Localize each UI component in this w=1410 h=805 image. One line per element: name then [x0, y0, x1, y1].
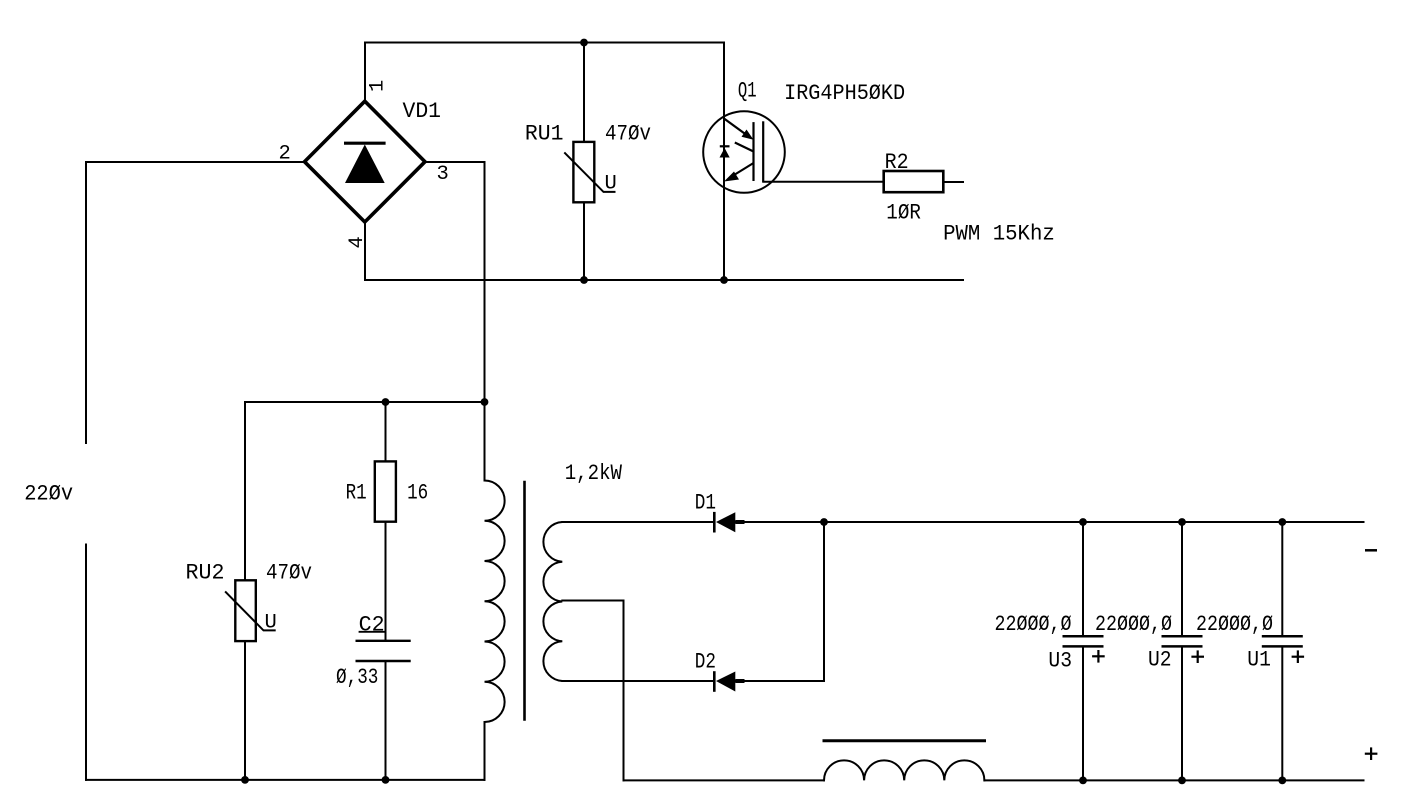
diode D2 cathode bar — [713, 671, 716, 692]
node neg rail / U3 — [1079, 518, 1087, 526]
wire bottom-right rail left part — [624, 779, 825, 781]
wire capacitor U1 bottom lead — [1281, 648, 1283, 781]
svg-text:U: U — [605, 173, 617, 196]
wire RU1 bottom lead — [583, 202, 585, 280]
wire capacitor U1 top lead — [1281, 522, 1283, 635]
capacitor C2 plates — [356, 641, 411, 661]
diode D1 anode stub — [735, 520, 744, 524]
capacitor U1 plates — [1262, 636, 1303, 646]
wire emitter rail — [365, 279, 963, 281]
output terminal plus — [1365, 747, 1378, 760]
svg-text:C2: C2 — [359, 613, 385, 638]
svg-text:R2: R2 — [885, 150, 909, 175]
node mid wire / R1 — [382, 398, 390, 406]
node neg rail / U2 — [1178, 518, 1186, 526]
wire top rail — [365, 42, 724, 44]
transformer T1 core — [523, 482, 526, 720]
node plus rail / U3 — [1079, 777, 1087, 785]
svg-text:22ØØØ,Ø: 22ØØØ,Ø — [1196, 612, 1273, 637]
svg-text:Q1: Q1 — [738, 79, 757, 104]
svg-text:D1: D1 — [695, 490, 716, 515]
wire capacitor U3 bottom lead — [1082, 648, 1084, 781]
wire pin3 drop to primary — [484, 162, 486, 481]
node bottom-left rail / RU2 — [241, 776, 249, 784]
node top rail / RU1 — [580, 39, 588, 47]
wire left drop upper — [85, 162, 87, 443]
diode D1 cathode bar — [713, 512, 716, 533]
svg-text:U2: U2 — [1148, 648, 1172, 673]
Q1 internal diode bar — [720, 145, 730, 147]
wire left drop lower (below 220v source gap) — [85, 545, 87, 780]
polarity + (U2) — [1191, 650, 1204, 663]
node emitter rail / RU1 — [580, 276, 588, 284]
varistor RU2 — [225, 580, 276, 641]
transformer T1 primary winding — [485, 481, 505, 723]
wire capacitor U3 top lead — [1082, 522, 1084, 635]
node plus rail / U2 — [1178, 777, 1186, 785]
resistor R2 — [884, 171, 944, 192]
svg-text:47Øv: 47Øv — [266, 560, 312, 585]
VD1 inner diode cathode bar — [344, 142, 386, 145]
capacitor U3 plates — [1063, 636, 1104, 646]
inductor L1 core bar — [824, 739, 985, 742]
wire C2 bottom lead — [385, 661, 387, 780]
transformer T1 secondary winding — [543, 522, 562, 681]
svg-text:22ØØØ,Ø: 22ØØØ,Ø — [995, 612, 1072, 637]
wire junction drop D1 to D2 — [823, 522, 825, 681]
wire primary bottom lead — [484, 722, 486, 780]
wire Q1 collector-emitter column — [723, 43, 725, 281]
diode D2 anode stub — [735, 679, 744, 683]
wire mid horizontal — [245, 401, 485, 403]
svg-text:PWM 15Khz: PWM 15Khz — [943, 222, 1055, 247]
wire bottom-right rail (plus rail) — [984, 779, 1363, 781]
svg-text:D2: D2 — [695, 650, 716, 675]
svg-text:2: 2 — [279, 143, 291, 166]
wire bridge pin2 to left — [86, 161, 305, 163]
diode D2 triangle — [716, 672, 735, 692]
svg-text:1ØR: 1ØR — [886, 201, 921, 226]
wire RU2 bottom lead — [244, 641, 246, 780]
Q1 inner bar 2 (gate) — [762, 121, 764, 182]
wire R2 right lead — [943, 181, 963, 183]
wire bottom-left rail — [86, 779, 485, 781]
VD1 inner diode triangle — [345, 145, 385, 184]
Q1 collector diagonal — [724, 119, 748, 137]
wire bridge pin4 lead — [364, 222, 366, 281]
Q1 inner bar 1 — [752, 122, 754, 181]
svg-text:U1: U1 — [1247, 648, 1271, 673]
svg-text:U3: U3 — [1048, 649, 1072, 674]
svg-text:1: 1 — [367, 80, 390, 92]
svg-text:Ø,33: Ø,33 — [336, 665, 378, 690]
wire capacitor U2 top lead — [1181, 522, 1183, 635]
output terminal minus — [1365, 549, 1377, 552]
wire D1 to junction and neg rail — [735, 521, 1363, 523]
wire RU1 top lead — [583, 43, 585, 143]
polarity + (U3) — [1092, 650, 1105, 663]
svg-text:IRG4PH5ØKD: IRG4PH5ØKD — [784, 81, 905, 106]
node neg rail / D1 branch — [820, 518, 828, 526]
svg-text:22ØØØ,Ø: 22ØØØ,Ø — [1095, 612, 1172, 637]
node emitter rail / Q1 — [720, 276, 728, 284]
svg-text:U: U — [265, 612, 277, 635]
IGBT Q1 body circle — [703, 111, 785, 193]
resistor R1 — [375, 461, 396, 521]
node plus rail / U1 — [1278, 777, 1286, 785]
wire mid tap drop — [623, 601, 625, 781]
svg-text:R1: R1 — [346, 480, 367, 505]
svg-text:VD1: VD1 — [403, 99, 442, 124]
wire capacitor U2 bottom lead — [1181, 648, 1183, 781]
Q1 internal diode triangle — [720, 148, 730, 158]
wire bridge pin1 lead — [364, 43, 366, 102]
svg-text:1,2kW: 1,2kW — [565, 461, 623, 486]
svg-text:47Øv: 47Øv — [605, 122, 651, 147]
inductor L1 winding — [824, 760, 984, 780]
node bottom-left rail / C2 — [382, 776, 390, 784]
wire R1 top lead — [385, 402, 387, 461]
svg-text:16: 16 — [407, 480, 428, 505]
varistor RU1 — [564, 142, 615, 202]
Q1 emitter diagonal — [730, 163, 754, 178]
capacitor U2 plates — [1162, 636, 1203, 646]
wire RU2 top lead — [244, 402, 246, 580]
Q1 inner short diagonal — [735, 143, 754, 152]
wire Q1 gate to R2 — [763, 181, 884, 183]
svg-text:RU1: RU1 — [525, 122, 564, 147]
diode D1 triangle — [716, 512, 735, 532]
wire secondary mid tap — [562, 600, 623, 602]
wire R1 to C2 — [385, 522, 387, 640]
polarity + (U1) — [1292, 650, 1305, 663]
Q1 emitter arrowhead — [724, 172, 739, 182]
svg-text:22Øv: 22Øv — [24, 481, 73, 506]
node mid wire / primary — [481, 398, 489, 406]
bridge rectifier VD1 body — [305, 101, 426, 222]
wire bridge pin3 stub — [425, 161, 485, 163]
svg-text:RU2: RU2 — [186, 560, 225, 585]
svg-text:3: 3 — [437, 163, 449, 186]
wire secondary bottom lead to D2 — [562, 680, 713, 682]
node neg rail / U1 — [1278, 518, 1286, 526]
wire secondary top lead to D1 — [562, 521, 713, 523]
svg-text:4: 4 — [346, 236, 369, 248]
wire D2 to vertical — [735, 680, 824, 682]
Q1 collector arrowhead — [742, 130, 754, 140]
capacitor C2 label underline — [359, 631, 385, 633]
